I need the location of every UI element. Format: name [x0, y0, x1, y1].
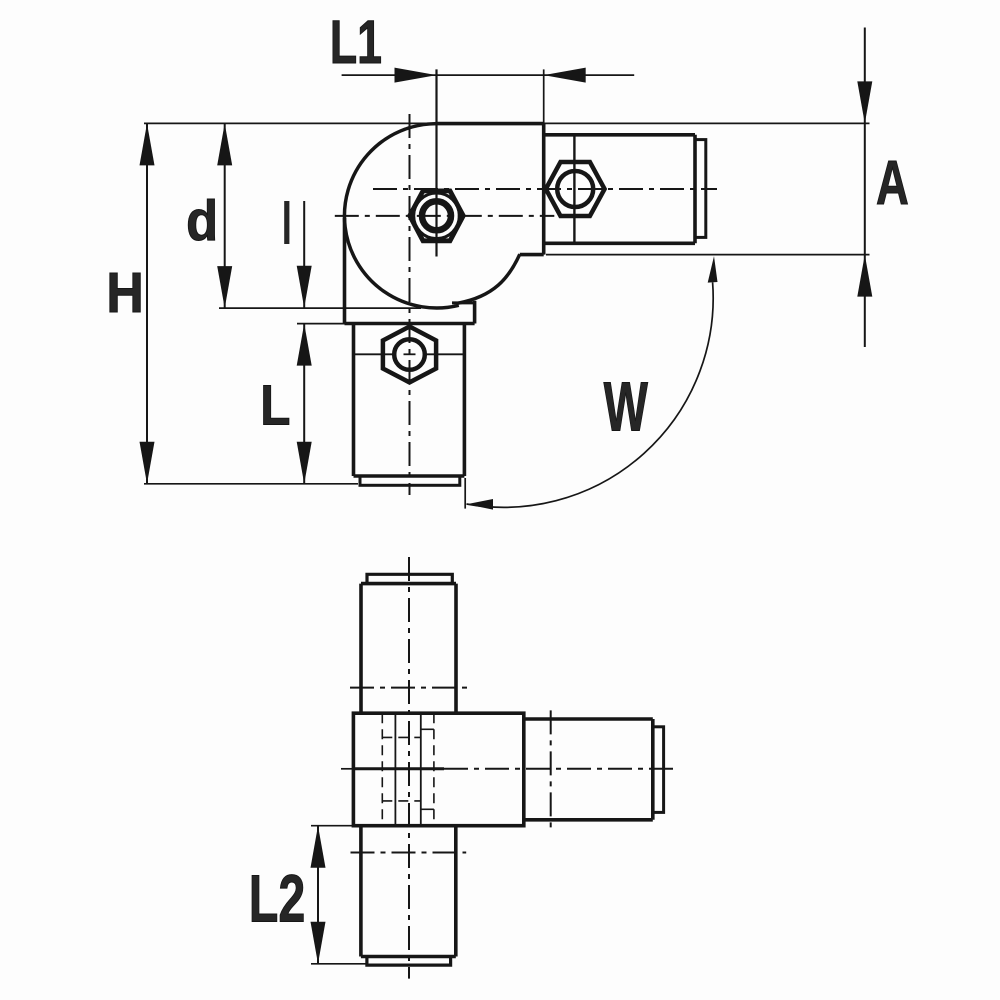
dimension L arrow down: [297, 442, 312, 484]
centerline vertical tube axis: [409, 114, 411, 495]
centerline right tube axis horizontal: [373, 188, 717, 190]
dimension L1 arrow left: [544, 68, 586, 83]
vertical tube right edge: [463, 324, 467, 477]
dimension L2 line: [317, 826, 319, 964]
dimension d line: [224, 123, 226, 308]
hex nut on horizontal tube: [546, 162, 605, 216]
hidden hole edge right: [433, 713, 435, 826]
centerline screw axis horizontal: [335, 215, 555, 217]
horizontal tube clamp line: [573, 136, 575, 243]
extension line bottom-right (A/W reference): [546, 254, 870, 256]
collar top edge right: [452, 301, 475, 304]
dimension W arrow top: [708, 256, 718, 283]
top tube left edge: [359, 584, 363, 714]
body right edge: [542, 124, 546, 255]
dimension L line: [303, 324, 305, 484]
bottom tube right edge: [454, 826, 458, 957]
horizontal tube end edge: [693, 135, 697, 244]
hidden slot step upper right: [421, 728, 434, 730]
body step bottom-right: [520, 253, 544, 257]
inner slot line right: [420, 713, 422, 826]
label l (bar glyph): [284, 201, 289, 244]
hidden hole edge left: [381, 713, 383, 826]
dimension W arrow bottom-left: [467, 499, 494, 510]
svg-text:H: H: [106, 261, 143, 325]
vertical tube left edge: [352, 324, 356, 477]
right tube end edge: [651, 719, 655, 820]
hex nut circle on vertical tube: [394, 339, 425, 370]
L2 extension line top: [311, 825, 352, 827]
hidden slot bottom upper: [382, 736, 421, 738]
block outline: [353, 713, 523, 826]
extension line tube end (H/L reference): [144, 483, 358, 485]
bottom tube end edge: [361, 955, 456, 959]
hidden slot top lower: [382, 800, 421, 802]
svg-text:A: A: [876, 149, 909, 218]
right tube top edge: [524, 717, 653, 721]
horizontal tube end cap: [695, 140, 706, 238]
vertical tube clamp line center dash: [404, 353, 416, 355]
vertical tube end edge: [354, 474, 465, 478]
L1 extension line right (body edge, thin above body): [543, 69, 545, 125]
dimension L1 line: [342, 74, 635, 76]
horizontal tube top edge: [544, 133, 695, 137]
top tube cap: [367, 574, 452, 583]
collar right edge: [473, 301, 477, 324]
top tube top edge: [361, 582, 456, 586]
block mid tick left: [341, 768, 353, 770]
W extension line (tube edge extended): [464, 478, 466, 509]
right tube end cap: [653, 727, 664, 813]
dimension l arrow down: [297, 266, 312, 308]
dimension A arrow up: [857, 255, 872, 297]
vertical tube clamp line right: [426, 353, 465, 355]
inner slot line left: [394, 713, 396, 826]
dimension H arrow up: [140, 123, 155, 165]
hidden slot step lower right: [421, 808, 434, 810]
svg-text:d: d: [186, 189, 218, 252]
block mid split line: [353, 767, 444, 770]
dimension H arrow down: [140, 442, 155, 484]
screw chamfer circle: [414, 193, 460, 239]
svg-text:L2: L2: [249, 861, 306, 936]
dimension L arrow up: [297, 324, 312, 366]
dimension l line: [303, 201, 305, 308]
svg-text:W: W: [604, 367, 649, 445]
bottom tube depth mark centerline: [351, 852, 467, 854]
body top edge: [437, 122, 544, 126]
vertical tube end cap: [360, 476, 460, 485]
dimension W arc: [467, 282, 714, 507]
hex nut on vertical tube: [383, 327, 436, 383]
dimension L2 arrow down: [311, 922, 326, 964]
dimension L2 arrow up: [311, 826, 326, 868]
right tube depth mark centerline: [550, 710, 552, 829]
L2 extension line bottom: [311, 963, 368, 965]
body inner fillet arc: [458, 254, 520, 303]
right tube bottom edge: [524, 818, 653, 822]
screw axis vertical line / L1 extension left (solid): [435, 69, 437, 256]
right tube centerline: [444, 768, 678, 770]
dimension d arrow down: [217, 266, 232, 308]
svg-text:L: L: [260, 374, 290, 438]
dimension d arrow up: [217, 123, 232, 165]
svg-text:L1: L1: [330, 8, 382, 76]
bottom tube left edge: [359, 826, 363, 957]
top tube right edge: [454, 584, 458, 714]
dimension A line: [864, 28, 866, 348]
body circle (elbow round boss): [344, 124, 458, 308]
horizontal tube bottom edge: [544, 242, 695, 246]
dimension L1 arrow right: [395, 68, 437, 83]
extension line collar bottom (L reference): [297, 323, 346, 325]
dimension A arrow down: [857, 81, 872, 123]
vertical tube clamp line left: [355, 353, 394, 355]
screw hex at circle center: [410, 191, 464, 241]
extension line top (H/d/L1/A reference): [144, 122, 870, 124]
hex nut circle on horizontal tube: [557, 171, 593, 207]
top tube depth mark centerline: [350, 687, 467, 689]
extension line circle bottom (d/l reference): [219, 307, 421, 309]
collar bottom edge: [345, 322, 475, 326]
dimension H line: [146, 123, 148, 483]
bottom tube end cap: [367, 957, 451, 966]
bottom view vertical centerline: [408, 557, 410, 979]
screw ring: [422, 201, 451, 230]
collar left edge: [343, 218, 347, 324]
